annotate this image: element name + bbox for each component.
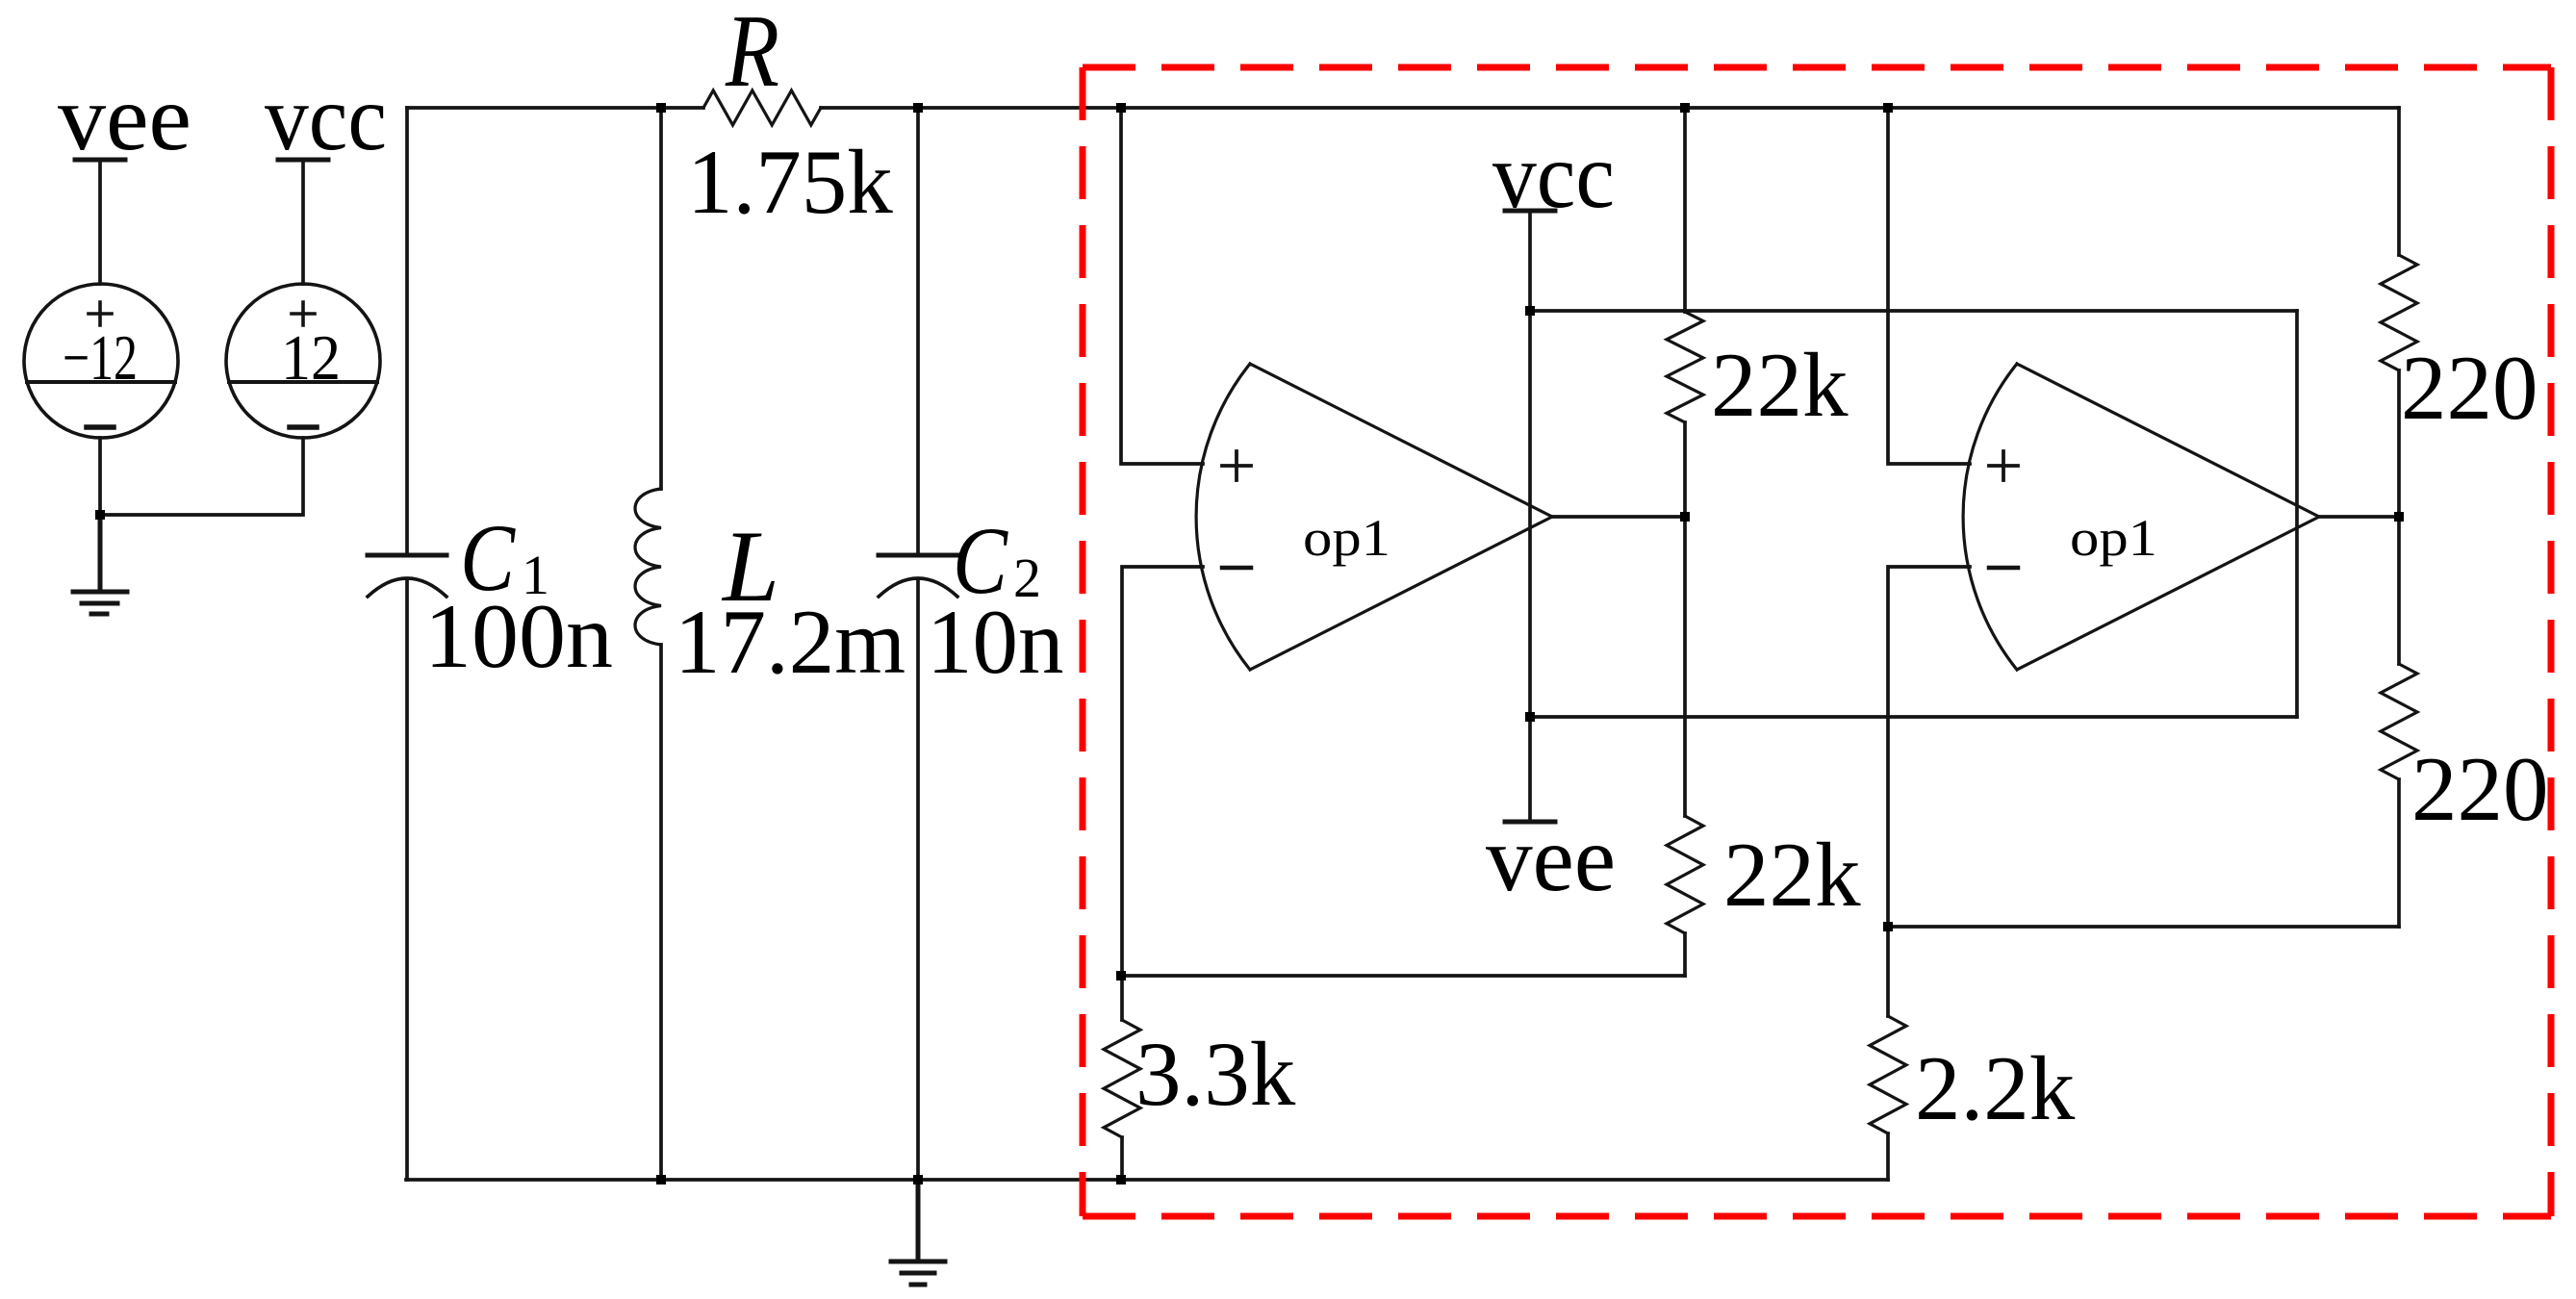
op-amp U2 minus pin <box>1989 566 2018 571</box>
junction top C2 branch <box>913 103 923 113</box>
svg-text:10n: 10n <box>927 591 1064 693</box>
wire 220 bottom lead <box>2397 779 2401 927</box>
junction vcc rail tap <box>1525 306 1535 316</box>
source V2 minus <box>290 424 317 430</box>
junction bottom ground branch <box>913 1175 923 1184</box>
red dashed region box <box>1083 67 2551 1216</box>
svg-text:3.3k: 3.3k <box>1135 1023 1296 1125</box>
ground main <box>891 1180 945 1285</box>
wire power rail vertical <box>1528 211 1532 822</box>
supply bar vcc rail <box>1505 209 1555 214</box>
resistor R1 zigzag <box>703 90 821 125</box>
resistor R22k upper zigzag <box>1667 312 1703 422</box>
wire L branch top lead <box>659 108 663 489</box>
wire feedback2 horizontal <box>1888 925 2399 929</box>
resistor R22k lower zigzag <box>1667 816 1703 933</box>
source V1 plus <box>89 302 112 325</box>
svg-text:vee: vee <box>58 66 191 169</box>
wire vee lead <box>98 160 102 284</box>
supply bar vee <box>75 158 125 163</box>
resistor R2p2k leads <box>1886 927 1890 1180</box>
wire op2 noninverting feed <box>1888 108 1970 464</box>
junction bottom 3.3k branch <box>1116 1175 1126 1184</box>
supply bar vee rail <box>1505 820 1555 825</box>
junction top 22k branch <box>1680 103 1690 113</box>
junction bottom L branch <box>656 1175 666 1184</box>
source V1 vee circle <box>24 284 178 438</box>
resistor R3p3k leads <box>1120 976 1124 1180</box>
junction vee rail tap <box>1525 712 1535 722</box>
wire feedback node horizontal <box>1122 974 1685 978</box>
wire op1 inverting feed <box>1122 567 1203 976</box>
svg-text:R: R <box>725 0 779 109</box>
op-amp U1 minus pin <box>1222 566 1251 571</box>
resistor R220 lower zigzag <box>2381 664 2417 779</box>
svg-text:2.2k: 2.2k <box>1915 1037 2076 1139</box>
svg-text:−12: −12 <box>63 322 138 394</box>
svg-text:100n: 100n <box>424 585 613 687</box>
wire C1 branch top lead <box>405 108 409 554</box>
wire L branch bottom lead <box>659 645 663 1180</box>
source V1 bar <box>27 380 175 384</box>
resistor R3p3k zigzag <box>1104 1020 1140 1137</box>
junction op2 output node <box>2394 512 2404 522</box>
junction top op2 plus feed <box>1883 103 1893 113</box>
svg-text:12: 12 <box>281 322 341 394</box>
junction top L branch <box>656 103 666 113</box>
resistor R220 upper zigzag <box>2381 255 2417 370</box>
wire C2 branch bottom lead <box>916 579 920 1180</box>
wire C2 branch top lead <box>916 108 920 554</box>
wire 22k bottom lead <box>1683 933 1687 976</box>
source V2 vcc circle <box>226 284 380 438</box>
source V2 plus <box>292 302 315 325</box>
junction op1 output node <box>1680 512 1690 522</box>
svg-text:vee: vee <box>1486 807 1616 910</box>
svg-text:op1: op1 <box>1303 509 1390 567</box>
svg-text:vcc: vcc <box>265 66 387 169</box>
junction sources common node <box>95 510 105 520</box>
wire top rail <box>407 106 2399 110</box>
op-amp U2 plus pin <box>1989 451 2018 480</box>
svg-text:op1: op1 <box>2070 509 2157 567</box>
inductor L1 coil <box>635 489 661 645</box>
supply bar vcc <box>278 158 328 163</box>
junction op2 inverting node <box>1883 922 1893 931</box>
capacitor C1 <box>368 555 446 597</box>
wire 220 chain top lead <box>2397 108 2401 255</box>
junction top op1 plus feed <box>1116 103 1126 113</box>
svg-text:22k: 22k <box>1723 824 1861 926</box>
wire op2 inverting feed <box>1888 567 1970 927</box>
wire vcc lead <box>301 160 305 284</box>
wire op2 output <box>2319 515 2399 519</box>
wire op1 output <box>1552 515 1685 519</box>
svg-text:vcc: vcc <box>1492 124 1615 227</box>
source V2 bar <box>229 380 377 384</box>
resistor R2p2k zigzag <box>1870 1016 1906 1133</box>
op-amp U1 plus pin <box>1222 451 1251 480</box>
svg-text:22k: 22k <box>1711 334 1849 436</box>
wire vcc rail horizontal <box>1530 309 2297 313</box>
wire rail right vertical <box>2295 311 2299 717</box>
junction op1 inverting node <box>1116 971 1126 981</box>
source V1 minus <box>87 424 114 430</box>
svg-text:220: 220 <box>2411 738 2549 840</box>
wire op1 noninverting feed <box>1121 108 1203 464</box>
op-amp U2 body <box>1963 364 2319 670</box>
capacitor C2 <box>879 555 957 597</box>
svg-text:1.75k: 1.75k <box>687 131 893 233</box>
wire vcc source bottom <box>100 438 303 515</box>
wire 22k chain top lead <box>1683 108 1687 312</box>
svg-text:17.2m: 17.2m <box>675 591 905 693</box>
svg-text:220: 220 <box>2401 337 2538 439</box>
wire 220 mid lead <box>2397 370 2401 664</box>
wire vee source bottom <box>98 438 102 515</box>
wire C1 branch bottom lead <box>405 579 409 1180</box>
wire 22k mid lead <box>1683 422 1687 816</box>
wire vee rail horizontal <box>1530 715 2297 719</box>
ground left <box>73 515 127 614</box>
op-amp U1 body <box>1196 364 1552 670</box>
wire bottom rail <box>406 1178 1888 1182</box>
